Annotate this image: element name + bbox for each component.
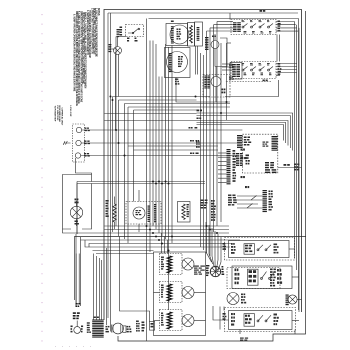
connector P4 ticks bbox=[87, 322, 90, 323]
wire bundle right v5 bbox=[216, 22, 218, 227]
door switch wire marks bbox=[127, 38, 129, 40]
broil relay K2 row bbox=[232, 266, 292, 289]
bottom left drops bbox=[106, 248, 108, 325]
connector box B hatch bbox=[197, 27, 200, 28]
wire labels left-center bbox=[196, 142, 198, 143]
broil element coil bbox=[113, 204, 116, 222]
switch bank 2 drop wire bbox=[225, 80, 279, 97]
element E3 indicator lamp bbox=[182, 315, 194, 327]
wire bundle left v0 bbox=[110, 13, 112, 332]
bottom motor M7 labels bbox=[127, 326, 129, 328]
bottom motor M7 bbox=[113, 323, 124, 334]
bake connector stack A bbox=[148, 206, 150, 207]
wire bundle right v6 bbox=[220, 43, 222, 222]
broil element leads bbox=[114, 197, 116, 205]
wire bundle left v3 bbox=[118, 100, 120, 236]
wire bundle right v0 bbox=[200, 53, 202, 247]
wire bundle left v6 bbox=[133, 110, 135, 202]
row labels right bus bbox=[270, 269, 273, 271]
oven light label bbox=[109, 44, 112, 45]
element E1 wiring bbox=[181, 263, 183, 265]
svg-text:PLY JUNCTION: PLY JUNCTION bbox=[56, 106, 58, 121]
P3 feed wires bbox=[93, 254, 95, 320]
wire bundle center v5 bbox=[161, 77, 163, 237]
wire bundle center v6 bbox=[165, 44, 167, 239]
terminal E3 (R) bbox=[75, 153, 80, 158]
wire N feed bbox=[81, 142, 237, 144]
wire bundle center v2 bbox=[152, 41, 154, 227]
element R2 coil bbox=[182, 204, 185, 220]
outer border bottom bbox=[118, 11, 306, 341]
wire L2 feed bbox=[81, 155, 236, 157]
lower bundle wire h4 bbox=[89, 244, 232, 248]
lock motor label bbox=[222, 89, 224, 91]
inner panel border bbox=[149, 19, 299, 311]
surface switch bank SW5-SW8 bbox=[231, 62, 276, 79]
element E2 wiring bbox=[181, 291, 183, 294]
door latch frame bbox=[215, 38, 227, 67]
lower bundle corner 1 bbox=[75, 237, 307, 301]
wire bundle center v7 bbox=[168, 47, 170, 310]
bottom row wires bbox=[219, 307, 221, 330]
wire bundle center v0 bbox=[146, 19, 148, 253]
oven light lead wires bbox=[115, 54, 117, 130]
EOC feed corner 4 bbox=[197, 123, 286, 144]
EOC feed corner 5 bbox=[197, 125, 284, 141]
door latch motor M3 bbox=[211, 41, 219, 49]
mid row wire h4 bbox=[134, 109, 197, 111]
bottom box bottom wires bbox=[239, 330, 241, 335]
mid row wire h0 bbox=[113, 96, 211, 98]
bake assembly dashed box bbox=[126, 202, 161, 225]
supply ground symbol bbox=[63, 141, 70, 145]
oven fan motor M2 brushes bbox=[169, 53, 172, 54]
inner border frame bbox=[108, 12, 298, 14]
cooling fan element coil bbox=[190, 26, 193, 44]
wire N drop bbox=[76, 158, 92, 182]
oven lamp L2 hatch bbox=[286, 295, 289, 296]
element box inner wires bbox=[154, 292, 160, 294]
lower left box frame bbox=[76, 184, 78, 235]
bake relay K1 row bbox=[229, 241, 290, 258]
right connect h2 bbox=[292, 276, 299, 278]
lock assembly dashed box bbox=[203, 75, 230, 98]
wire bundle left v5 bbox=[127, 107, 129, 243]
wire bundle left v2 bbox=[115, 37, 117, 227]
bake motor M6 bbox=[133, 207, 145, 219]
power terminal dashed box bbox=[73, 124, 85, 162]
door switch label bbox=[120, 27, 123, 29]
bottom dashes bbox=[240, 338, 244, 339]
oven fan motor M2 rotor bbox=[167, 52, 188, 73]
lower bundle wire h6 bbox=[96, 253, 154, 255]
EOC left stack labels bbox=[244, 137, 247, 139]
relay K1 left label bbox=[223, 243, 226, 245]
page fold line bbox=[41, 14, 43, 345]
wire label BK top bbox=[260, 10, 263, 12]
EOC feed labels bbox=[197, 110, 200, 112]
cooling fan motor M5 bbox=[70, 206, 82, 218]
EOC control board dashed box bbox=[242, 134, 277, 173]
EOC feed corner 1 bbox=[197, 113, 293, 151]
relay K2 dashed box bbox=[227, 268, 280, 289]
wire bundle center v3 bbox=[155, 44, 157, 229]
motor box tails bbox=[176, 78, 230, 103]
element E3 wiring bbox=[181, 319, 183, 322]
right bus wire 3 bbox=[298, 28, 300, 312]
wire bundle center v8 bbox=[171, 47, 173, 243]
switch bank 2 hatch frame bbox=[230, 63, 242, 80]
motor M1 label bbox=[171, 21, 174, 23]
notes text block bbox=[73, 8, 99, 106]
EOC lower stack labels bbox=[246, 155, 250, 157]
oven fan motor M2 box bbox=[165, 48, 191, 78]
double feed wires bbox=[77, 181, 205, 183]
bank interconnect wires bbox=[276, 35, 278, 62]
warmer connector strip bbox=[263, 190, 267, 191]
convection motor M1 marks bbox=[177, 29, 179, 30]
clock feed rows bbox=[128, 145, 218, 147]
element R2 box bbox=[178, 202, 191, 223]
latch wire labels bbox=[229, 65, 231, 66]
terminal E1 label bbox=[85, 128, 87, 129]
oven lamp L2 bbox=[288, 295, 297, 304]
element box feeds bbox=[161, 233, 163, 254]
clock connector strip bbox=[227, 149, 231, 150]
clock connector labels bbox=[233, 150, 236, 152]
clock connector wires bbox=[218, 152, 227, 154]
wire bundle center v4 bbox=[158, 77, 160, 234]
right bus wire 2 bbox=[296, 25, 298, 270]
element coil box A bbox=[188, 23, 195, 47]
fuse F1 marks bbox=[76, 303, 78, 305]
junction knot bbox=[210, 266, 220, 276]
sensor labels bbox=[201, 200, 204, 202]
switch bank 2 labels bbox=[278, 63, 281, 65]
convection motor M8 bbox=[227, 293, 239, 305]
wire bundle right v3 bbox=[209, 28, 211, 256]
lower bundle wire h5 bbox=[93, 250, 154, 252]
lower bundle wire h3 bbox=[85, 244, 230, 248]
bottom small box bbox=[150, 322, 155, 331]
fuse feed wires bbox=[75, 254, 77, 304]
switch bank 1 output wires bbox=[276, 21, 295, 23]
EOC text marks bbox=[263, 142, 266, 143]
wire bundle right v2 bbox=[206, 31, 208, 253]
EOC bottom stack bbox=[265, 162, 269, 163]
convection motor M1 box bbox=[166, 24, 188, 46]
relay K3 left label bbox=[223, 313, 226, 315]
motor M2 label bbox=[175, 79, 178, 80]
bottom ticks right bbox=[136, 321, 139, 322]
terminal E3 label bbox=[84, 153, 86, 154]
lock motor M4 bbox=[211, 77, 221, 87]
door latch connector stack bbox=[205, 37, 209, 38]
element box ground cluster bbox=[194, 266, 199, 267]
connector box B bbox=[195, 22, 203, 46]
element E2 indicator lamp bbox=[182, 287, 194, 299]
EOC left connector stack bbox=[237, 135, 242, 136]
right connect h3 bbox=[297, 299, 301, 301]
right connect h4 bbox=[292, 320, 299, 322]
switch bank 1 input wires bbox=[217, 21, 233, 23]
switch bank 1 labels bbox=[278, 21, 281, 22]
surface element E2 bbox=[160, 282, 183, 303]
wire bundle left v4 bbox=[124, 104, 126, 240]
right connect h1 bbox=[289, 248, 295, 250]
switch bank 2 input wires bbox=[222, 63, 233, 65]
svg-text:6. VERIFY PROPER OPERATION AFT: 6. VERIFY PROPER OPERATION AFTER SERVICI… bbox=[73, 14, 76, 92]
mid row wire h2 bbox=[125, 103, 231, 105]
surface element box frame bbox=[154, 252, 206, 336]
door switch S1 dashed box bbox=[126, 25, 144, 37]
surface relay K3 row bbox=[229, 311, 293, 330]
junction dots bbox=[152, 181, 154, 183]
bake box leads bbox=[138, 190, 140, 202]
svg-text:L1 N L2 GR: L1 N L2 GR bbox=[69, 106, 71, 117]
wire bundle center v1 bbox=[149, 41, 151, 253]
lower bundle wire h2 bbox=[81, 239, 241, 241]
EOC right connector stack bbox=[272, 136, 278, 137]
broil element label bbox=[106, 200, 109, 202]
wire labels x240 area bbox=[241, 149, 243, 151]
element E1 indicator lamp bbox=[182, 258, 194, 270]
lower bundle wire h1 bbox=[63, 229, 230, 233]
lock connector stack bbox=[204, 76, 207, 77]
surface switch bank SW1-SW4 bbox=[231, 20, 276, 35]
terminal E1 (BK) bbox=[76, 127, 81, 132]
wire bundle right v4 bbox=[213, 25, 215, 232]
right bus labels bbox=[294, 164, 296, 166]
convection motor M1 brushes bbox=[171, 26, 174, 27]
wire fan-in bundle bbox=[206, 222, 212, 262]
feed wire labels mid bbox=[189, 127, 191, 129]
wire bundle left v1 bbox=[112, 97, 114, 233]
EOC feed corner 2 bbox=[197, 116, 291, 149]
surface element E3 bbox=[160, 310, 183, 331]
wire bundle right v1 bbox=[203, 55, 205, 250]
convection motor M1 rotor bbox=[170, 25, 189, 44]
warmer wires cluster bbox=[228, 195, 231, 196]
cooling fan motor M5 loop bbox=[63, 175, 92, 230]
cooling fan motor M5 labels bbox=[75, 199, 77, 201]
oven light L1 bbox=[114, 47, 122, 55]
svg-text:COPPER AL ONLY: COPPER AL ONLY bbox=[60, 108, 63, 126]
EOC feed corner 3 bbox=[105, 121, 289, 146]
right bus wire 1 bbox=[294, 22, 296, 259]
door switch S1 contacts bbox=[128, 28, 139, 33]
surface element E1 bbox=[160, 254, 183, 275]
EOC lower stack bbox=[236, 153, 239, 154]
bake connector stack B bbox=[154, 204, 156, 205]
bank1 top stub bbox=[229, 13, 231, 20]
mid row wire h1 bbox=[119, 99, 197, 101]
wire L1 feed bbox=[82, 129, 243, 131]
svg-text:TO POWER SUP: TO POWER SUP bbox=[54, 106, 56, 122]
latch vertical wires bbox=[195, 46, 197, 75]
bottom ticks mid bbox=[106, 326, 108, 328]
connector P3 block bbox=[92, 320, 104, 321]
terminal E2 (W) bbox=[76, 140, 81, 145]
outer border frame bbox=[104, 10, 302, 321]
oven fan motor M2 marks bbox=[178, 56, 180, 57]
element R2 label bbox=[187, 204, 189, 205]
relay K3 dashed box bbox=[225, 308, 296, 332]
terminal E2 label bbox=[84, 141, 87, 142]
warmer connector labels bbox=[269, 191, 271, 193]
lower bundle h7 bbox=[105, 225, 230, 227]
EOC P1-8 wire bbox=[278, 167, 302, 169]
relay K1 dashed box bbox=[225, 238, 295, 261]
switch bank 2 output wires bbox=[276, 63, 297, 65]
fuse F1 body bbox=[74, 327, 81, 334]
convection motor M8 labels bbox=[241, 294, 243, 296]
mid row wire h5 bbox=[105, 113, 197, 115]
mid row wire h3 bbox=[128, 106, 230, 108]
